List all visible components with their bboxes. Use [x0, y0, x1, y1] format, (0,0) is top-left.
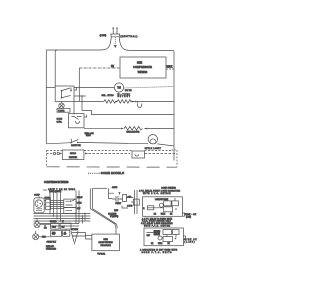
timer contacts [61, 90, 63, 92]
cap box [148, 206, 154, 210]
wires inside box1 [148, 198, 176, 208]
relay boxes [64, 199, 76, 207]
svg-text:COMP: COMP [34, 194, 40, 196]
svg-text:4 P.T. RELAY, START & RUN CAPA: 4 P.T. RELAY, START & RUN CAPACITOR [139, 189, 181, 192]
svg-text:CUTOUT: CUTOUT [118, 96, 131, 98]
svg-text:TM: TM [117, 87, 120, 90]
wire box right dashed [166, 68, 174, 70]
svg-text:A CAPACITOR IS NOT USED WITH: A CAPACITOR IS NOT USED WITH [140, 248, 178, 251]
svg-text:W/BK: W/BK [161, 213, 166, 215]
mold heater box [62, 150, 84, 160]
compressor wiring box U1 [120, 57, 166, 78]
svg-text:SEL. HTRS: SEL. HTRS [102, 95, 115, 97]
svg-text:· · · · · - SOME MODELS: · · · · · - SOME MODELS [88, 171, 124, 175]
bus diagonal to see box [90, 209, 115, 225]
dashed hook top [172, 149, 178, 151]
some models dashed row [47, 153, 53, 155]
wire fan to rail [157, 144, 174, 146]
svg-text:WITH P.T.C. DEVICE: WITH P.T.C. DEVICE [144, 225, 171, 227]
wire row2 [74, 101, 104, 103]
lower mesh horizontals [34, 213, 91, 215]
small boxes row1 [51, 223, 59, 229]
wire row5 [46, 143, 71, 144]
svg-text:SEE: SEE [103, 239, 108, 241]
svg-text:RELAY: RELAY [77, 196, 83, 199]
label T-MTR framed [57, 108, 70, 112]
svg-text:(LINE): (LINE) [185, 242, 195, 244]
mullion heater resistor [124, 127, 143, 131]
cold control contact [72, 117, 82, 124]
ground pin dashed [114, 37, 116, 45]
arrow right [144, 128, 147, 130]
svg-text:OR TM: OR TM [125, 90, 132, 92]
svg-text:CAP: CAP [147, 234, 151, 237]
boxes [164, 201, 171, 206]
svg-text:SOME P.T.C. UNITS: SOME P.T.C. UNITS [142, 252, 173, 254]
dashed box bottom [47, 166, 177, 168]
capacitor cluster [108, 190, 139, 218]
evap fan motor [148, 135, 157, 144]
ground arrow [114, 45, 117, 48]
svg-text:HTRS: HTRS [86, 135, 91, 137]
junction dot 2 [135, 101, 137, 103]
svg-text:START RLY: START RLY [47, 240, 57, 243]
wire left rail [45, 50, 47, 144]
wire junction stubs [83, 214, 86, 224]
svg-text:BK W/BK: BK W/BK [71, 229, 79, 231]
wire box B to row3 [84, 115, 86, 117]
svg-text:(NEUTRAL): (NEUTRAL) [120, 35, 137, 38]
wire left inner drop [55, 50, 57, 86]
svg-text:BK: BK [154, 213, 157, 215]
svg-text:W (NEUT): W (NEUT) [110, 216, 119, 218]
svg-text:LIGHT SW.: LIGHT SW. [71, 145, 81, 147]
wire row1 [74, 87, 114, 89]
timer box A [55, 86, 74, 102]
connector stubs [36, 219, 66, 237]
svg-text:MAIN WIRING: MAIN WIRING [98, 241, 113, 244]
small boxes row2 [51, 230, 62, 236]
relay contacts [66, 199, 76, 210]
svg-text:COMP. WIRING: COMP. WIRING [161, 187, 176, 189]
svg-text:RLY: RLY [53, 227, 57, 229]
some models dashed box top [47, 150, 63, 152]
wire mesh row6 [50, 225, 79, 227]
svg-text:4 MFD: 4 MFD [112, 187, 118, 189]
defrost timer motor TM [114, 83, 123, 92]
top box [132, 151, 145, 158]
svg-text:T: T [119, 193, 121, 195]
bracket [182, 213, 184, 216]
svg-text:COMPRESSOR: COMPRESSOR [133, 65, 152, 69]
svg-text:HEATER: HEATER [69, 156, 78, 159]
timer motor circle-X [59, 103, 64, 108]
svg-text:BK: BK [168, 243, 171, 245]
bus top wire [93, 187, 107, 189]
svg-text:TYPICAL: TYPICAL [97, 253, 105, 256]
terminal strip [46, 199, 51, 209]
fan circle 1 [34, 222, 40, 228]
svg-text:RUN: RUN [114, 210, 119, 212]
wire row5 right [78, 142, 148, 143]
svg-text:BK CHG: BK CHG [50, 221, 57, 223]
main bus pair [89, 188, 91, 208]
arrow left [121, 128, 124, 130]
see box [92, 234, 120, 251]
svg-text:(LINE): (LINE) [186, 216, 191, 218]
converging wires [71, 231, 78, 245]
power plug P1 [111, 28, 120, 37]
left dashed edge [46, 151, 48, 168]
wire row4 [84, 128, 121, 130]
wire cluster step [74, 88, 77, 91]
wires to see box [72, 233, 92, 240]
bus verticals [75, 191, 77, 224]
cluster verticals [73, 102, 75, 115]
mesh verticals [49, 193, 51, 214]
wire row1 dotted [124, 87, 174, 89]
dashed box right edge [176, 150, 178, 167]
junction dot [116, 101, 118, 103]
wire line cord left [46, 37, 111, 50]
svg-text:INTLK LIGHT: INTLK LIGHT [145, 148, 162, 150]
cold control box B [69, 114, 85, 128]
svg-text:MOLD: MOLD [70, 153, 77, 155]
svg-text:R: R [143, 208, 145, 210]
defrost thermostat curl [137, 102, 141, 108]
compressor housing [34, 198, 44, 213]
wire row3 jog [82, 111, 174, 115]
relay box2 [144, 228, 183, 246]
stub y=96 [74, 96, 86, 111]
svg-text:OVERLOAD: OVERLOAD [46, 248, 57, 251]
hatched block [154, 230, 161, 236]
svg-text:(LINE) (NEUT): (LINE) (NEUT) [49, 191, 61, 193]
svg-text:RLY: RLY [62, 226, 66, 228]
wire line cord right [119, 37, 174, 51]
fan circle 2 [33, 234, 39, 240]
resistor hi-temp cutout [117, 100, 131, 103]
wire rail to box A [46, 87, 55, 89]
svg-text:MULLION HTR: MULLION HTR [127, 131, 140, 133]
connector circles [53, 152, 55, 154]
svg-text:BK: BK [170, 213, 173, 215]
svg-text:CTRL: CTRL [57, 122, 63, 124]
motor horizontals [44, 200, 46, 202]
svg-text:WIRING: WIRING [138, 70, 148, 74]
svg-text:(LINE): (LINE) [100, 35, 107, 37]
svg-text:SEE: SEE [137, 61, 142, 65]
relay box1 [143, 197, 183, 217]
arrow [132, 101, 135, 103]
arrows [85, 153, 89, 155]
light switch [70, 139, 72, 143]
svg-text:T-MTR: T-MTR [58, 110, 65, 112]
wire right rail [173, 51, 175, 161]
svg-text:COMPRESSOR WIRING: COMPRESSOR WIRING [44, 181, 69, 184]
svg-text:4 MFD: 4 MFD [127, 206, 133, 208]
wire box left dash-dot [79, 67, 120, 69]
circle [159, 203, 163, 207]
svg-text:PTC: PTC [52, 233, 56, 235]
svg-text:START: START [115, 202, 122, 205]
svg-text:DIAGRAM: DIAGRAM [100, 244, 110, 247]
svg-text:OVLD: OVLD [77, 203, 82, 205]
wire vertical drop [78, 68, 80, 102]
svg-text:W/BK: W/BK [158, 243, 163, 245]
svg-text:WITH P.T.C. DEVICE: WITH P.T.C. DEVICE [143, 193, 171, 195]
svg-text:OL: OL [64, 233, 66, 235]
svg-text:RUN CAP: RUN CAP [46, 245, 55, 248]
right labels box2 [183, 236, 185, 240]
svg-text:W/BK: W/BK [167, 66, 173, 68]
svg-text:COLD: COLD [57, 119, 63, 121]
resistor defrost heater [104, 100, 116, 103]
svg-text:BK: BK [151, 243, 154, 245]
svg-text:SG: SG [44, 227, 47, 229]
